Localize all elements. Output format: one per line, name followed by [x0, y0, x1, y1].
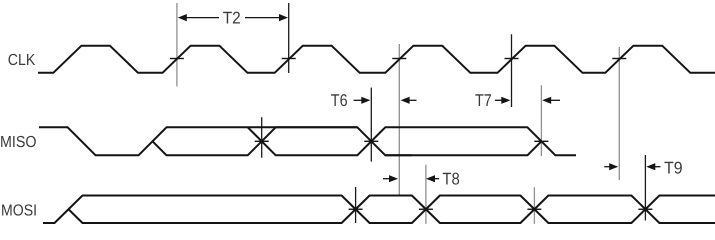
- tick on MOSI crossover at x=425.9: [419, 208, 433, 210]
- CLK waveform: [38, 46, 715, 73]
- svg-text:T7: T7: [475, 91, 492, 110]
- svg-text:T9: T9: [664, 159, 683, 178]
- T2 right arrow: [245, 17, 280, 19]
- T8 left arrow pointing right: [383, 178, 391, 180]
- T9 right arrow pointing left: [654, 166, 660, 168]
- tick on CLK rising edge at x=619.3: [612, 58, 626, 60]
- MOSI waveform low start and rise: [43, 196, 715, 224]
- tick on MISO crossover at x=261.7: [255, 140, 269, 142]
- measurement line at x=176.9 (T2 left, grey): [176, 3, 178, 86]
- measurement line at x=288.7 (T2 right, black): [288, 3, 290, 73]
- tick on MOSI crossover at x=355.6: [349, 208, 363, 210]
- tick on CLK rising edge at x=511.5: [505, 58, 519, 60]
- tick on MISO crossover at x=541.4: [534, 140, 548, 142]
- measurement line at x=425.9 (T8 right, grey): [425, 165, 427, 224]
- measurement line at x=645.4 (T9 right, black): [644, 155, 646, 221]
- svg-text:T2: T2: [223, 8, 241, 27]
- svg-text:T8: T8: [442, 170, 459, 189]
- tick on CLK rising edge at x=399.3: [392, 58, 406, 60]
- svg-text:MOSI: MOSI: [1, 202, 37, 219]
- MISO bus open half-diagonal at x=152.5: [153, 127, 358, 155]
- MOSI open half diagonal at x=68.5: [69, 196, 715, 224]
- MISO bottom segment and close X at x=541.4: [385, 141, 541, 155]
- T6 left arrow pointing right: [354, 99, 363, 101]
- measurement line at x=371.3 (T6 left, black): [370, 88, 372, 162]
- tick on MISO crossover at x=371.3: [364, 140, 378, 142]
- measurement line at x=399.3 (T6 right / T8 left, grey): [398, 44, 400, 195]
- svg-text:CLK: CLK: [8, 52, 36, 69]
- tick on MOSI crossover at x=645.4: [638, 208, 652, 210]
- tick on CLK rising edge at x=176.5: [170, 58, 184, 60]
- T9 left arrow pointing right: [604, 166, 610, 168]
- tick on MOSI crossover at x=534.4: [527, 208, 541, 210]
- svg-text:T6: T6: [331, 91, 348, 110]
- svg-text:MISO: MISO: [0, 134, 37, 151]
- measurement line at x=261.7 (MISO crossover, black): [261, 117, 263, 158]
- measurement line at x=541.4 (T7 right, grey): [540, 85, 542, 156]
- T7 right arrow pointing left: [550, 99, 560, 101]
- MISO waveform initial high segment and fall: [39, 127, 412, 155]
- MISO crossover X at x=261.7: [248, 127, 576, 155]
- T8 right arrow pointing left: [434, 178, 439, 180]
- measurement line at x=355.6 (MOSI crossover, black): [355, 187, 357, 223]
- T7 left arrow pointing right: [495, 99, 503, 101]
- measurement line at x=534.4 (MOSI crossover, grey): [533, 187, 535, 224]
- T6 right arrow pointing left: [409, 99, 417, 101]
- tick on CLK rising edge at x=288.7: [282, 58, 296, 60]
- measurement line at x=619.3 (T9 left, grey): [618, 47, 620, 180]
- T2 left arrow: [185, 17, 219, 19]
- measurement line at x=511.5 (T7 left, black): [511, 34, 513, 107]
